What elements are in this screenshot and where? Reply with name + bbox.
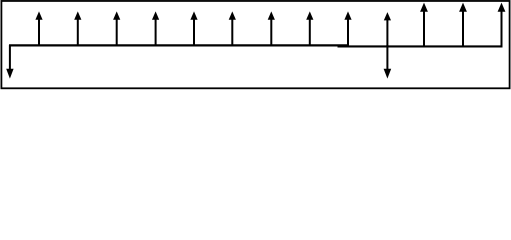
up arrow A9	[344, 11, 351, 46]
up arrow A3	[113, 11, 120, 46]
border frame	[1, 1, 509, 88]
wire baseline left segment	[9, 44, 348, 46]
up arrow A7	[268, 11, 275, 46]
up arrow A6	[229, 11, 236, 46]
up arrow A8	[306, 11, 313, 46]
up arrow A2	[74, 11, 81, 46]
up arrow A4	[152, 11, 159, 46]
tall up arrow G2	[459, 3, 467, 46]
wire baseline right segment	[338, 45, 503, 47]
up arrow A10 (crossing)	[384, 12, 391, 46]
tall up arrow G1	[420, 3, 428, 46]
down arrow D0 (left end)	[6, 45, 13, 79]
tall up arrow G3 (line end)	[498, 3, 506, 46]
up arrow A1	[35, 11, 42, 46]
up arrow A5	[190, 11, 197, 46]
down arrow D10 (below baseline, same x as A10)	[384, 45, 392, 79]
